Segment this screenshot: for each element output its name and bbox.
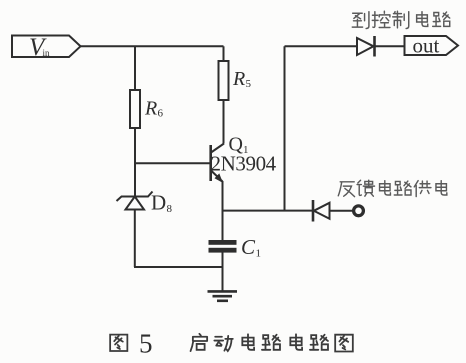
svg-text:5: 5 (246, 78, 252, 90)
svg-text:D: D (151, 191, 166, 215)
svg-text:1: 1 (256, 248, 262, 260)
svg-text:2N3904: 2N3904 (211, 152, 277, 176)
svg-text:in: in (43, 48, 51, 58)
svg-text:R: R (232, 68, 245, 90)
svg-text:5: 5 (139, 329, 153, 359)
svg-text:out: out (413, 34, 440, 58)
svg-text:R: R (144, 98, 157, 120)
svg-text:C: C (241, 235, 256, 259)
svg-text:6: 6 (158, 108, 164, 120)
svg-text:8: 8 (167, 203, 173, 215)
